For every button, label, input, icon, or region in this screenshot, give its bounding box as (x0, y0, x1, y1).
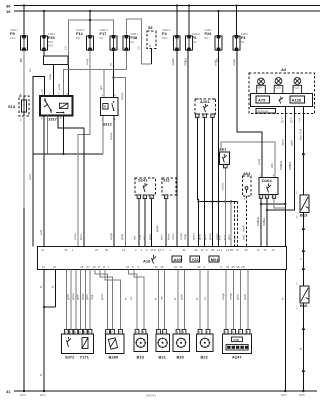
svg-text:A4: A4 (281, 67, 287, 72)
wire EP3 ground from junction down (284, 204, 286, 391)
svg-text:sw/ge: sw/ge (232, 58, 236, 66)
wire A18 to S372 p2 (70, 270, 72, 330)
lamp H99 (257, 78, 266, 93)
fuse F9 (10, 6, 27, 52)
wire branch pin47 to ground column (44, 306, 56, 308)
svg-text:gn/ws: gn/ws (192, 232, 196, 240)
svg-text:gn/ro: gn/ro (198, 233, 202, 240)
junction CAN-H (260, 203, 262, 205)
wire rail 30 (14, 5, 320, 7)
wire X11 p1 to A18 (165, 199, 167, 247)
svg-text:0,5: 0,5 (19, 58, 23, 62)
A18 top pin numbers (41, 248, 275, 252)
svg-text:K99: K99 (257, 86, 262, 90)
svg-text:ws/ge: ws/ge (229, 292, 233, 300)
svg-text:Y171: Y171 (80, 354, 90, 359)
svg-text:br: br (298, 348, 302, 350)
svg-text:ro/gn: ro/gn (183, 233, 187, 240)
info box An 12 pin (256, 108, 276, 113)
svg-text:30A: 30A (162, 36, 167, 40)
svg-text:ws/sw: ws/sw (73, 233, 77, 240)
wire feeder y20 from rail15 to F17 (90, 11, 114, 36)
arrow on lower sender line (302, 248, 306, 252)
junction ground EP3 (284, 390, 286, 392)
wire S312 pin2 drop to y154 (102, 116, 104, 154)
wire A18 to A247 p3 (240, 270, 242, 330)
relay J317 (40, 92, 73, 122)
wire A18 to A247 p4 (247, 270, 249, 330)
wire bus end dashed down to A18 (237, 202, 239, 247)
svg-text:30A: 30A (192, 40, 197, 44)
connector A45 (dashed) (243, 171, 252, 201)
junction feeder x90 (89, 19, 91, 21)
svg-text:M61: M61 (211, 257, 220, 262)
svg-text:gn/br: gn/br (203, 234, 207, 240)
connector X? (dashed) right of S241 (162, 178, 176, 200)
wire junction horizontal y154 to col33 (33, 153, 103, 155)
wire F24 down through bus to A18 (218, 50, 220, 247)
svg-text:li/sw 0.35: li/sw 0.35 (298, 128, 302, 140)
module A128 (290, 96, 305, 103)
svg-text:A18: A18 (143, 259, 151, 264)
wire bus dashed drop x234.5 (234, 202, 236, 247)
svg-text:A61: A61 (219, 146, 227, 151)
svg-text:5A: 5A (241, 40, 245, 44)
svg-text:sw/we: sw/we (109, 132, 113, 140)
wire A18 to B22 p2 (207, 270, 209, 330)
wire A18 to A247 p1 (225, 270, 227, 330)
svg-text:gr/ws: gr/ws (100, 293, 104, 300)
svg-text:gn/sw: gn/sw (71, 293, 75, 300)
fuse F6 (186, 6, 201, 52)
svg-text:CAN-L: CAN-L (288, 161, 292, 170)
fuse F17 (100, 28, 117, 51)
junction rail15-F12 (89, 10, 91, 12)
wire F6 down to A18 crossing bus (187, 50, 189, 247)
sensor B19 (134, 329, 148, 359)
svg-text:ge/bl: ge/bl (180, 294, 184, 300)
wire S312 pin4 to A18 (113, 116, 115, 247)
junction rail30-F9 (23, 4, 25, 6)
svg-text:gn/sw: gn/sw (208, 233, 212, 240)
wire og/sw from A4 to CAN-H (261, 117, 285, 204)
A18 bottom pin numbers (42, 265, 245, 269)
wire lower sensor to ground EP5 (302, 303, 304, 391)
wire F34 to connector box (43, 50, 45, 56)
svg-text:53: 53 (148, 25, 153, 30)
wire A18 to B280 p1 (95, 270, 107, 330)
junction F17 above S312 (112, 76, 114, 78)
svg-text:B20: B20 (177, 354, 185, 359)
svg-text:5A: 5A (130, 40, 134, 44)
wire og/br from A4 to CAN-L (267, 117, 294, 210)
wire S13 down to ground (black lower) (23, 208, 25, 391)
module box Y22 inside A18 (190, 256, 200, 262)
display unit A247 (222, 329, 251, 359)
svg-text:B13: B13 (300, 213, 308, 218)
svg-text:CAN-H: CAN-H (256, 217, 260, 226)
junction rail15-F34 (43, 10, 45, 12)
control unit A161 (195, 99, 216, 119)
svg-text:sw/gn: sw/gn (179, 232, 183, 240)
svg-text:bl/gr: bl/gr (138, 235, 142, 240)
wire A18 to B20 p1 (177, 270, 179, 330)
control box inside A4 (250, 94, 312, 107)
svg-text:sw/ro: sw/ro (28, 173, 32, 180)
svg-text:EP5: EP5 (299, 393, 305, 397)
fuse F24 (205, 11, 222, 51)
switch+valve unit S372 Y171 (62, 329, 94, 359)
svg-text:br: br (39, 374, 43, 376)
svg-text:og/sw: og/sw (280, 139, 284, 146)
wire A4 og/sw pin stub (284, 106, 286, 117)
svg-text:(ws): (ws) (242, 235, 246, 240)
wire J317 pin8 down to junction y154 (47, 116, 49, 155)
svg-text:EP3: EP3 (281, 393, 287, 397)
svg-text:br: br (173, 298, 177, 300)
wire F4 down to A18 crossing bus (176, 50, 178, 247)
svg-text:sw/li: sw/li (39, 229, 43, 235)
fuse S13 (dashed holder) (8, 92, 29, 122)
wire S241 p1 to A18 (138, 199, 140, 247)
svg-text:B19: B19 (137, 354, 145, 359)
wire A18 to A247 p2 (233, 270, 235, 330)
sensor G? lower right resistor (296, 282, 309, 310)
svg-text:ro/ge: ro/ge (48, 73, 52, 80)
svg-text:D164: D164 (262, 178, 272, 183)
wire feeder left branch to connector box (67, 20, 91, 63)
wire S13 down to ground (gray upper) (23, 116, 25, 208)
sensor G? upper right resistor (296, 191, 309, 220)
svg-text:A63: A63 (243, 171, 251, 176)
svg-text:sw: sw (29, 69, 32, 72)
junction rail30-F3 (235, 4, 237, 6)
junction rail30-F4 (176, 4, 178, 6)
wire J317 pin6 down to junction y154 (63, 116, 65, 155)
svg-text:B280: B280 (109, 354, 119, 359)
wire A18 to Y171 p5 (84, 270, 86, 330)
wire A18 to B20 p2 (184, 270, 186, 330)
wire ground rail 31 (14, 390, 317, 392)
wire J317 pin3 riser to F38 bottom (63, 70, 126, 97)
svg-text:gn/br: gn/br (66, 294, 70, 300)
switch S241 (dashed) (135, 178, 156, 200)
svg-text:rt: rt (298, 258, 302, 260)
svg-text:ro/sw: ro/sw (171, 234, 175, 240)
svg-text:ge/ro: ge/ro (236, 293, 240, 300)
svg-text:2,5: 2,5 (137, 46, 141, 50)
svg-text:5A: 5A (100, 36, 104, 40)
svg-text:sw/ge: sw/ge (109, 232, 113, 240)
svg-text:Y22: Y22 (192, 257, 200, 262)
component 53 relay socket (dashed) (147, 25, 156, 64)
svg-text:5A: 5A (76, 36, 80, 40)
module box M61 inside A18 (209, 256, 219, 262)
switch unit S312 (101, 93, 118, 127)
wire A18 to B19 p1 (128, 270, 137, 330)
junction rail30-F6 (188, 4, 190, 6)
module A75 (256, 96, 270, 103)
wire A18 to B19 p2 (134, 270, 144, 330)
svg-text:gr/ro: gr/ro (227, 234, 231, 240)
wire A18 to S372 p1 (66, 270, 68, 330)
wire F9 to S13 (23, 50, 25, 96)
svg-text:sw: sw (204, 297, 207, 300)
svg-text:An 12 pin: An 12 pin (257, 109, 269, 113)
wire A18 to Y171 p6 (89, 270, 91, 330)
svg-text:ro/li: ro/li (133, 235, 137, 240)
wire A18 to B21 p2 (164, 270, 166, 330)
svg-text:li/ro: li/ro (217, 235, 221, 240)
svg-text:A161: A161 (200, 99, 210, 104)
svg-text:0,5: 0,5 (215, 58, 219, 62)
svg-text:br: br (51, 286, 55, 288)
svg-text:B22: B22 (201, 354, 209, 359)
arrow2 on lower sender line (302, 266, 306, 270)
wire A18 to B280 p3 (105, 270, 121, 330)
wire A18 pin45 column to J317 pin1 (33, 77, 45, 247)
wire box to J317 pin2 (53, 64, 55, 96)
wire F38 bottom stub (125, 50, 127, 70)
svg-text:ws/br: ws/br (257, 158, 261, 165)
arrow2 on EP5 wire (302, 368, 306, 372)
wire box to J317 pin5 (67, 64, 69, 96)
svg-text:2,5: 2,5 (64, 46, 68, 50)
svg-text:20A: 20A (48, 44, 53, 48)
svg-text:S312: S312 (103, 122, 113, 127)
svg-text:DTR: DTR (234, 338, 239, 342)
wire J317 pin4 down to A18 pin41 (43, 116, 45, 247)
svg-text:sw/gr: sw/gr (85, 58, 89, 65)
sensor B21 (156, 329, 170, 359)
arrow mid sender line (302, 226, 306, 230)
wire branch F17 to A18 column (114, 78, 126, 247)
connector box above J317 (44, 56, 69, 65)
junction og/sw EP3 (284, 203, 286, 205)
fuse F34 (40, 11, 55, 51)
junction ground A18 branch (43, 390, 45, 392)
wire F38 top loop (126, 19, 151, 64)
svg-text:EP2: EP2 (20, 393, 26, 397)
svg-text:S13: S13 (8, 104, 16, 109)
svg-text:A40: A40 (173, 257, 181, 262)
junction ground column y307 (43, 306, 45, 308)
wire A18 to B22 p1 (199, 270, 201, 330)
wire A18 pin14 to ground (43, 270, 45, 392)
fuse F12 (76, 11, 93, 51)
wire A4 og/br pin stub (293, 106, 295, 117)
svg-text:(sw): (sw) (233, 235, 237, 240)
svg-text:(ws/4): (ws/4) (242, 225, 246, 232)
svg-text:br/sw: br/sw (79, 234, 83, 240)
svg-text:J317: J317 (48, 117, 58, 122)
svg-text:20 9: 20 9 (151, 248, 157, 252)
svg-text:ws/gn: ws/gn (221, 292, 225, 300)
wire A18 to B21 p1 (158, 270, 160, 330)
svg-text:CAN-L: CAN-L (262, 217, 266, 226)
svg-text:2,5: 2,5 (184, 58, 188, 62)
svg-text:gr/li: gr/li (99, 85, 103, 90)
wire J317 pin7 down jog to A18 (58, 116, 84, 247)
wire labels above A18 (120, 225, 246, 240)
svg-text:br/ws: br/ws (166, 233, 170, 240)
wire A18 to B280 p2 (100, 270, 113, 330)
junction CAN-L (266, 209, 268, 211)
wire A161 p3 down to A18 (212, 118, 214, 247)
svg-text:A247: A247 (232, 354, 242, 359)
svg-text:2,5: 2,5 (171, 58, 175, 62)
svg-text:br/ro: br/ro (160, 234, 164, 240)
svg-text:S241: S241 (138, 178, 148, 183)
fuse F38 (123, 32, 138, 51)
svg-text:ws/sw: ws/sw (220, 183, 224, 190)
diode unit A61 (219, 146, 230, 168)
junction y154 (62, 153, 64, 155)
svg-text:EP4: EP4 (40, 393, 46, 397)
wire CAN-H D164 to A18 (260, 198, 262, 246)
wire S241 p2 to A18 (144, 199, 146, 247)
svg-text:bl/sw: bl/sw (148, 234, 152, 240)
wire F12 down jog to A18 (78, 50, 90, 247)
svg-text:me: me (161, 296, 164, 300)
switch glyph in control box (279, 97, 283, 104)
svg-text:ge/gn: ge/gn (155, 225, 159, 232)
wire S241 p4 to A18 (151, 199, 153, 247)
wire A4 pin to gauge sender line (302, 106, 304, 195)
gateway D164 (259, 174, 278, 200)
wire labels below fuse row (19, 58, 219, 62)
svg-text:sw: sw (110, 63, 113, 66)
lamp H121 (293, 78, 302, 94)
svg-text:li/ws: li/ws (223, 234, 227, 240)
junction ground EP5 (302, 390, 304, 392)
sensor B22 (197, 329, 214, 359)
module box A40 inside A18 (172, 256, 182, 262)
wire F17 into S312 (113, 50, 115, 97)
svg-text:A128: A128 (292, 97, 302, 102)
wire F3 bend to D164 (237, 50, 262, 178)
svg-text:B16: B16 (300, 303, 308, 308)
svg-text:sw/ws: sw/ws (120, 92, 124, 100)
junction rail15-F24 (217, 10, 219, 12)
svg-text:ge/br: ge/br (243, 294, 247, 300)
wire rail 15 (14, 10, 320, 12)
svg-text:br: br (123, 298, 127, 300)
arrow on sender line (302, 151, 306, 155)
svg-text:S372: S372 (65, 354, 75, 359)
svg-text:ge/gn: ge/gn (80, 293, 84, 300)
wire D164 pin5 to EP3 column (274, 198, 285, 208)
wire sender to lower sensor (302, 212, 304, 286)
svg-text:K121: K121 (294, 86, 301, 90)
svg-text:sw/bl: sw/bl (57, 83, 61, 90)
wire A18 to S372 p3 (75, 270, 77, 330)
svg-text:A75: A75 (258, 97, 266, 102)
fuse F4 (162, 6, 180, 52)
svg-text:B21: B21 (159, 354, 167, 359)
svg-text:bl/li: bl/li (143, 236, 147, 240)
wire A18 to S372 p4 (80, 270, 82, 330)
wire tap to S312 pin1 (103, 70, 105, 98)
wire CAN-L D164 to A18 (266, 198, 268, 246)
svg-text:ge/bl: ge/bl (76, 294, 80, 300)
svg-text:br: br (280, 298, 284, 300)
pressure sensor B280 (105, 329, 124, 359)
svg-text:X11: X11 (163, 178, 171, 183)
junction bus x229 (224, 200, 226, 202)
control unit A18 main box (37, 247, 286, 270)
junction bus x221 (217, 200, 219, 202)
junction bus x213 (211, 200, 213, 202)
svg-text:rt/br: rt/br (270, 163, 274, 168)
svg-text:300741: 300741 (146, 394, 156, 398)
arrow on EP5 wire (302, 326, 306, 330)
wire A45 dashed down to A18 (246, 196, 248, 246)
svg-text:CAN-H: CAN-H (279, 161, 283, 170)
sensor B20 (173, 329, 190, 359)
svg-text:br: br (39, 286, 43, 288)
wire A61 top pin up to D164 feeder (221, 142, 275, 178)
wire A161 p2 down to A18 (204, 118, 206, 247)
svg-text:ge/ro: ge/ro (85, 293, 89, 300)
wire A161 p4 down to A18 (197, 118, 198, 247)
svg-text:30: 30 (6, 3, 11, 8)
wire A18 pin47 down (55, 270, 57, 308)
svg-text:ro/gr: ro/gr (90, 294, 94, 300)
fuse F3 (233, 6, 248, 52)
junction ground S13 branch (23, 390, 25, 392)
svg-text:10A: 10A (10, 36, 15, 40)
bus wire horizontal (198, 201, 237, 203)
lamp H120 (274, 78, 283, 94)
svg-text:M: M (149, 44, 151, 48)
svg-text:31: 31 (6, 389, 11, 394)
svg-text:15: 15 (6, 9, 11, 14)
svg-text:5A: 5A (205, 36, 209, 40)
svg-text:gr/ge: gr/ge (120, 233, 124, 240)
svg-text:K120: K120 (275, 86, 282, 90)
wire A61 output through bus to A18 (224, 168, 226, 247)
svg-text:og/br: og/br (289, 140, 293, 146)
